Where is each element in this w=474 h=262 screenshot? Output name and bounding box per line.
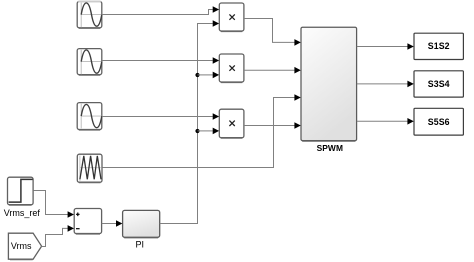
triangle wave source [77, 154, 102, 183]
SPWM subsystem block [301, 27, 357, 141]
svg-text:S5S6: S5S6 [428, 117, 450, 127]
PI controller block [123, 210, 160, 238]
wire step to sum plus input [33, 191, 74, 218]
wire sum to PI [102, 220, 123, 227]
wire SPWM output 3 to S5S6 [357, 118, 414, 125]
wire sine3 to multiplier3 [102, 113, 219, 120]
step source Vrms_ref [8, 177, 34, 205]
sine wave source 2 [77, 49, 102, 76]
wire control line branch to multiplier2 second input [198, 72, 220, 79]
sum block [74, 209, 101, 235]
From tag Vrms [8, 233, 41, 260]
wire SPWM output 2 to S3S4 [357, 81, 414, 88]
wire PI output control line up to multiplier1 second input [160, 20, 219, 223]
multiplier block 3 [219, 109, 244, 138]
wire Vrms tag to sum minus input [42, 225, 74, 246]
svg-text:Vrms_ref: Vrms_ref [4, 208, 41, 218]
wire SPWM output 1 to S1S2 [357, 43, 414, 50]
wire control line branch to multiplier3 second input [198, 128, 220, 135]
junction node on control line at multiplier2 [195, 73, 199, 77]
svg-text:Vrms: Vrms [11, 241, 32, 251]
wire sine1 to multiplier1 [102, 6, 219, 14]
multiplier block 1 [219, 3, 244, 32]
output block S5S6 [414, 108, 463, 135]
wire multiplier2 to SPWM input 2 [244, 67, 301, 74]
sine wave source 3 [77, 103, 102, 131]
svg-text:S1S2: S1S2 [428, 41, 450, 51]
wire sine2 to multiplier2 [102, 57, 219, 64]
svg-text:SPWM: SPWM [317, 143, 343, 153]
wire triangle wave to SPWM input 3 [102, 94, 300, 167]
sine wave source 1 [77, 1, 102, 28]
wire multiplier1 to SPWM input 1 [244, 19, 301, 46]
wire multiplier3 to SPWM input 4 [244, 122, 301, 129]
output block S3S4 [414, 71, 463, 97]
output block S1S2 [414, 33, 463, 59]
svg-text:PI: PI [136, 240, 145, 250]
svg-text:S3S4: S3S4 [428, 79, 450, 89]
multiplier block 2 [219, 54, 244, 83]
junction node on control line at multiplier3 [195, 129, 199, 133]
